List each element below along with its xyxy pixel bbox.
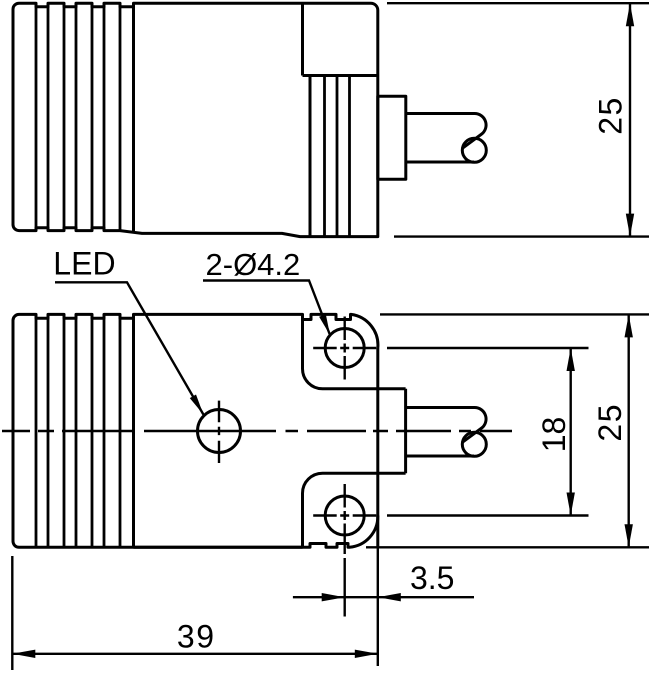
extension line 25 top (plan) — [380, 313, 649, 315]
arrowheads 39 — [12, 650, 35, 658]
upper recess and gland top line — [303, 314, 406, 388]
bottom view body outline with crenellated cap, notches and ear arcs — [19, 314, 378, 348]
bottom edge and rounded left cap corners (plan) — [13, 314, 303, 547]
dimension 25 (right of plan) — [366, 314, 649, 547]
svg-text:25: 25 — [592, 403, 628, 442]
gland right edge (plan) — [404, 389, 407, 473]
svg-text:3.5: 3.5 — [410, 560, 454, 596]
svg-text:39: 39 — [177, 618, 216, 654]
lower recess and gland bottom line — [303, 473, 406, 547]
dimension line with outside arrows — [293, 596, 474, 598]
arrowheads 18 — [567, 348, 575, 371]
arrowheads 25 top view — [626, 3, 634, 26]
extension of body right edge — [377, 547, 379, 666]
dimension 3.5 — [293, 547, 474, 666]
box bottom step — [303, 74, 378, 77]
extension line 39 left — [11, 556, 13, 670]
dimension line 39 — [12, 653, 378, 655]
connector box left edge — [301, 3, 304, 75]
dimension line — [629, 3, 631, 236]
crosshair top hole — [313, 317, 376, 380]
cable with end loop (side view) — [406, 114, 486, 149]
svg-text:2-Ø4.2: 2-Ø4.2 — [206, 247, 301, 282]
dimension 18 (right of plan) — [387, 348, 589, 516]
dimension 39 — [12, 556, 378, 670]
mounting hole bottom — [325, 496, 364, 535]
mounting hole top — [325, 329, 364, 368]
crosshair bottom hole — [313, 484, 376, 554]
extension line 18 top — [387, 347, 589, 349]
svg-text:25: 25 — [593, 96, 629, 135]
cap fin edge lines (plan) — [36, 315, 120, 547]
extension line top — [387, 2, 649, 4]
dimension line 18 — [570, 348, 572, 516]
horizontal centerline — [2, 430, 512, 432]
cap/body junction line (plan) — [132, 314, 135, 547]
cable with end loop (plan) — [406, 408, 486, 443]
extension line 25 bottom (plan) — [366, 546, 649, 548]
dimension line 25 (plan) — [628, 314, 630, 547]
bottom ear arc, notched bottom edge (plan) — [134, 516, 378, 548]
top view body outline with ribbed cap crenellation — [13, 3, 378, 236]
svg-text:18: 18 — [536, 417, 572, 453]
crosshair LED vertical — [218, 401, 220, 463]
arrowheads 3.5 — [322, 593, 345, 601]
LED window circle — [198, 410, 241, 453]
arrowheads 25 plan — [625, 314, 633, 337]
cap fin edge lines — [36, 4, 120, 230]
dimension 25 (top view, right) — [387, 3, 649, 236]
cable gland nut (side view) — [378, 96, 406, 179]
cap/body junction line — [132, 3, 135, 232]
extension line bottom — [394, 235, 649, 237]
extension of hole center line — [344, 558, 346, 617]
extension line 18 bottom — [387, 514, 589, 516]
strain relief left edge — [309, 76, 312, 237]
body right edge (plan) — [376, 348, 379, 547]
strain relief rib lines — [325, 76, 350, 237]
svg-text:LED: LED — [53, 245, 115, 281]
